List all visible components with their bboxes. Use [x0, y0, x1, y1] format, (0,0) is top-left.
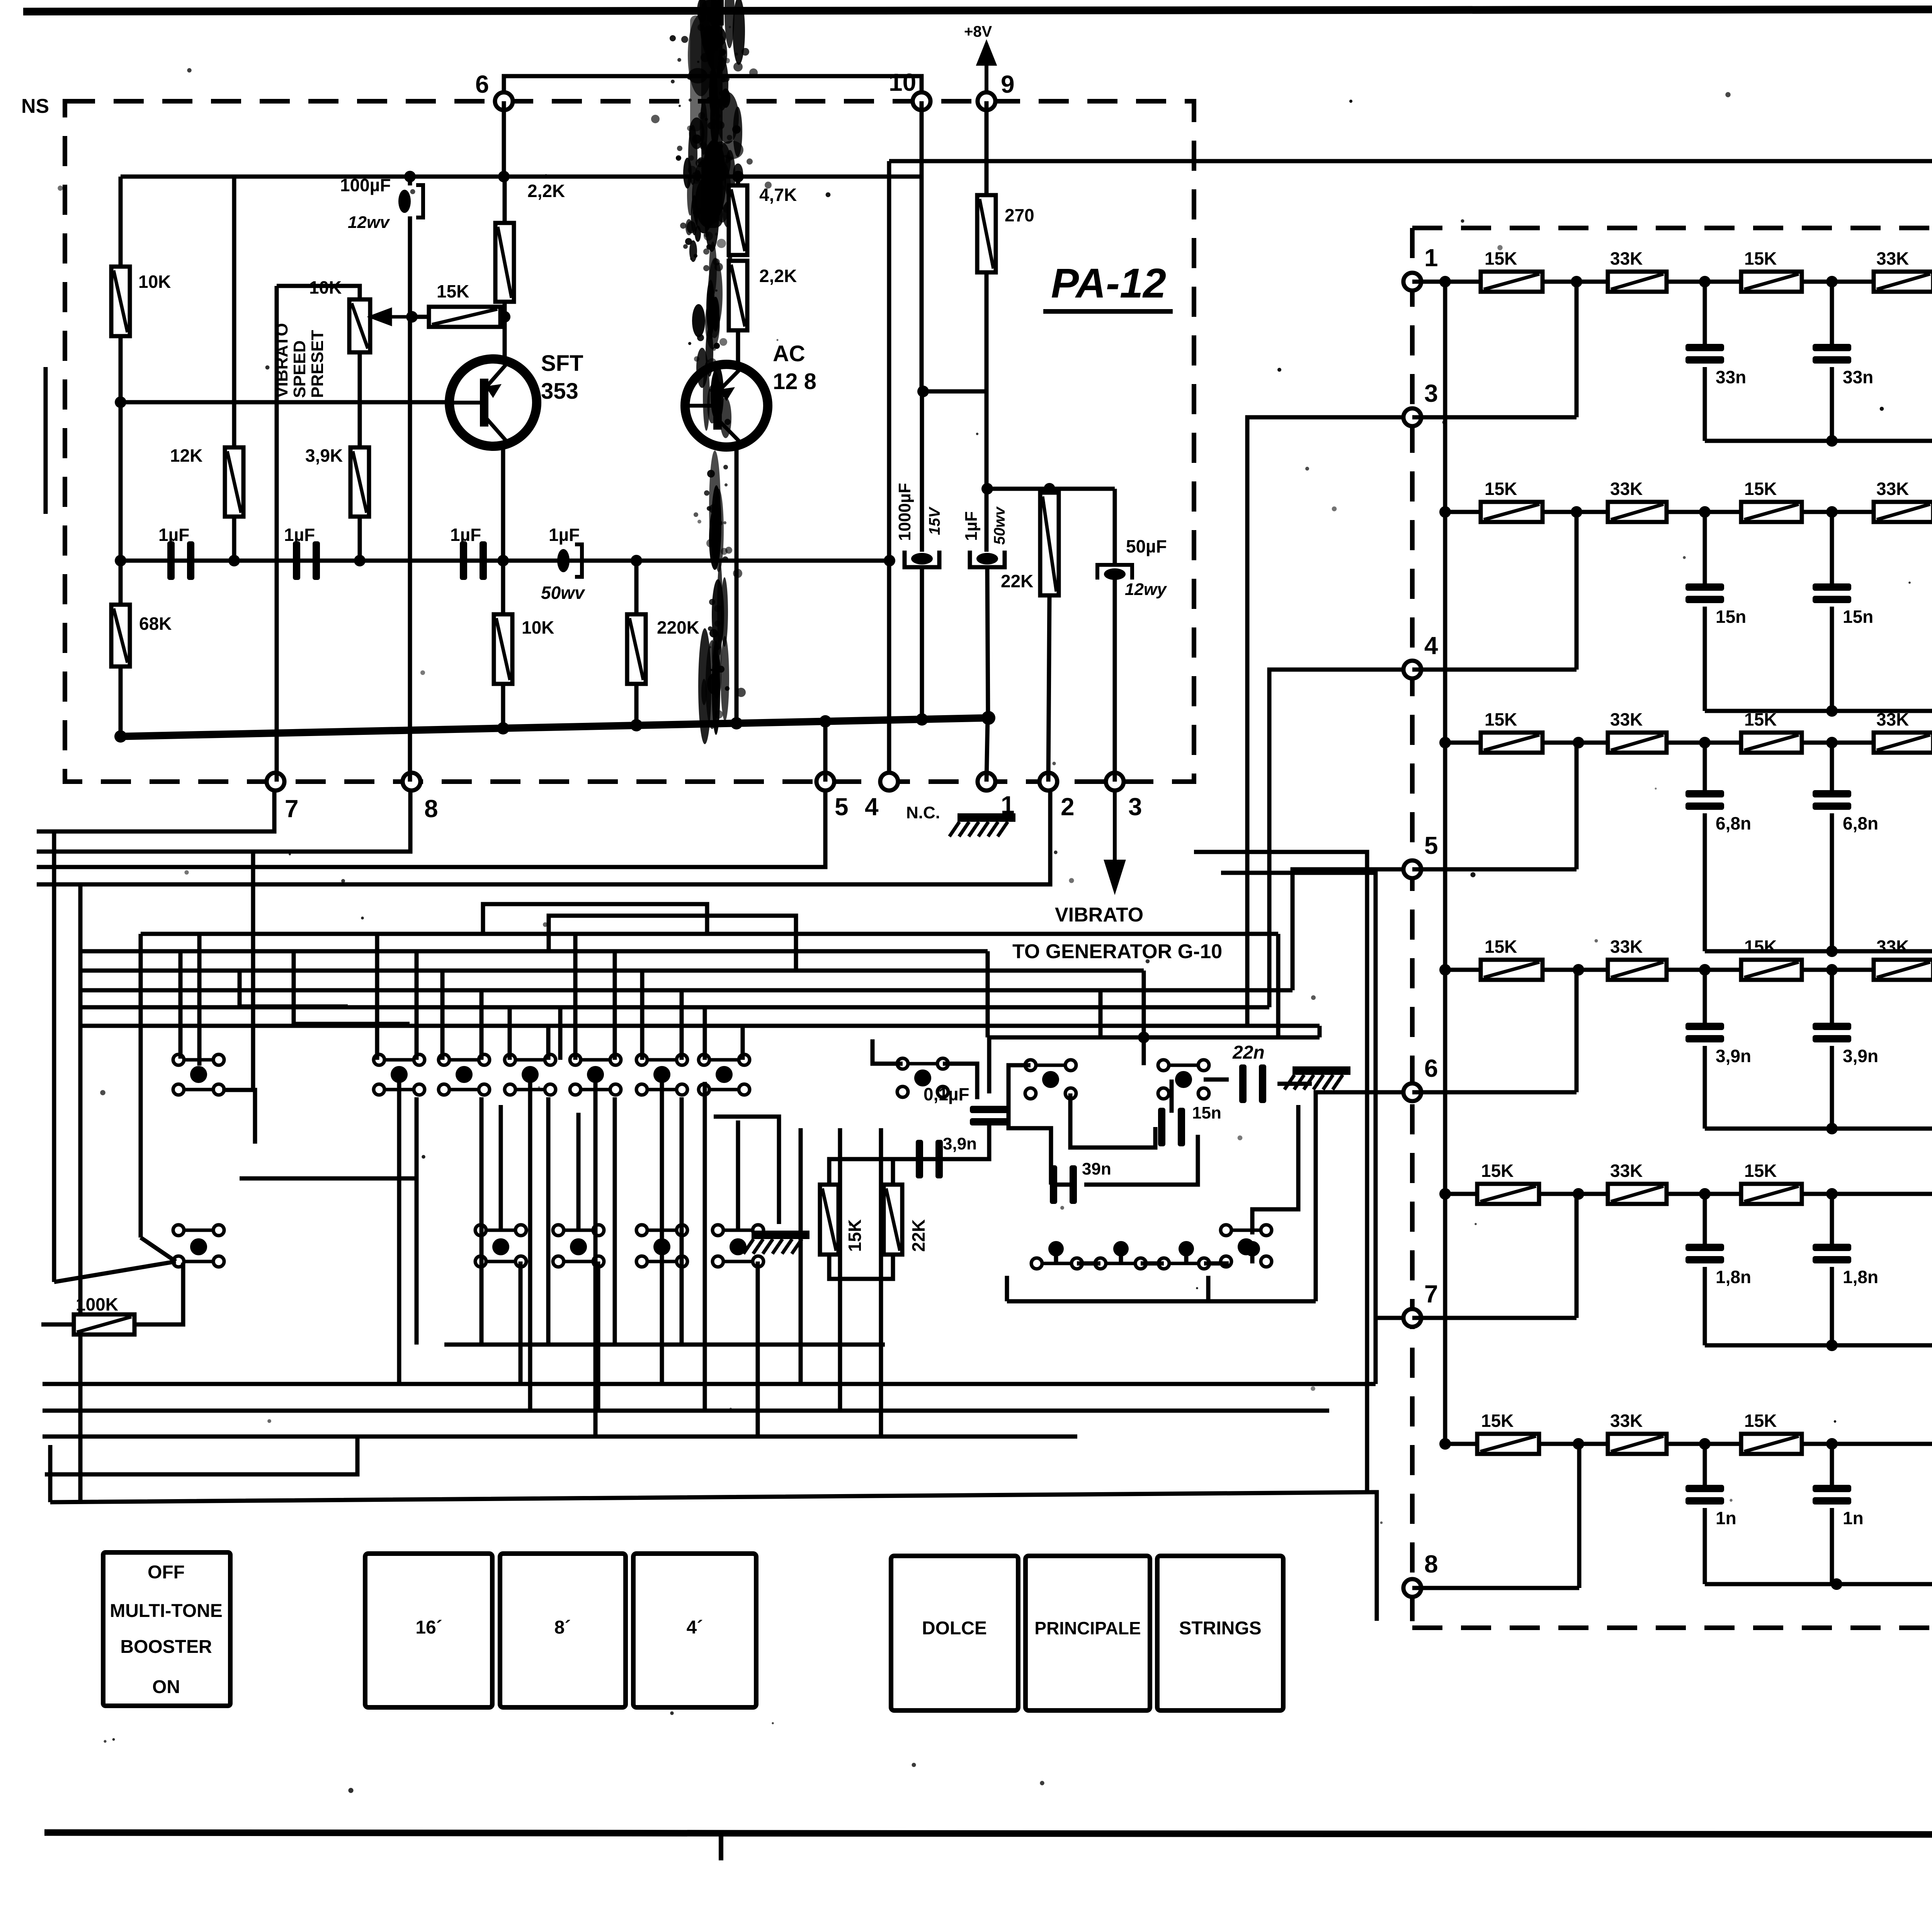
resistor 100K: [74, 1314, 134, 1335]
wire main return line: [1705, 1582, 1932, 1586]
wire pin6 line: [1412, 1090, 1577, 1095]
wire matrix row2 dropper x1961: [756, 1261, 760, 1437]
junction row5 x4741: [1826, 1188, 1838, 1200]
svg-text:1µF: 1µF: [158, 525, 189, 545]
junction caps line left: [115, 555, 126, 566]
wire matrix row2 riser x1296: [499, 1105, 503, 1230]
switch unit row1 x1033: [374, 1054, 425, 1095]
wire filter w9: [1009, 1065, 1051, 1185]
wire filter c to 22n: [1204, 1078, 1229, 1082]
wire filter bottom loop stub: [1206, 1276, 1211, 1301]
PA-12 ground bus thick: [121, 718, 988, 736]
FD-10 dashed left edge: [1410, 228, 1415, 1628]
junction row3 left: [1439, 737, 1451, 748]
wire SFT collector: [501, 445, 505, 561]
resistor 2.2K: [495, 223, 514, 302]
junction row2 left: [1439, 506, 1451, 518]
junction bus-220K: [630, 719, 643, 731]
junction row3 return a: [1826, 945, 1838, 957]
wire row1 cap drop x4741: [1830, 282, 1834, 344]
node FD-10 pin 6: [1403, 1083, 1421, 1101]
junction row4 x4085: [1573, 964, 1584, 976]
wire 22K feed line: [987, 487, 1115, 491]
svg-text:33K: 33K: [1610, 1411, 1643, 1431]
wire AC128 emitter lead: [736, 330, 740, 366]
junction row2 return a: [1826, 705, 1838, 717]
wire filter bottom dot drop x3241: [1250, 1249, 1255, 1263]
ground 22n: [1284, 1066, 1350, 1090]
switch unit row2 x1497: [553, 1225, 604, 1267]
svg-text:220K: 220K: [657, 617, 699, 638]
junction bus end: [981, 711, 995, 725]
svg-text:1,8n: 1,8n: [1843, 1267, 1878, 1287]
wire filter gnd link: [714, 1117, 779, 1224]
resistor 15K r6c: [1741, 1411, 1802, 1454]
wire interrow vertical row1-row2: [1443, 282, 1447, 512]
node FD-10 pin 1: [1403, 273, 1421, 291]
wire fan b: [141, 1238, 176, 1261]
resistor 15K r5c: [1741, 1161, 1802, 1204]
transistor SFT353: [449, 351, 583, 446]
wire FD10 pin3 to matrix: [1247, 417, 1402, 1026]
wire lower bus a: [43, 1382, 1376, 1386]
svg-text:SPEED: SPEED: [290, 340, 309, 398]
wire 270 to node10 vertical: [923, 272, 986, 391]
wire row4 cap to return x4412: [1703, 1046, 1707, 1129]
junction row2 x4741: [1826, 506, 1838, 518]
svg-text:10: 10: [889, 68, 916, 96]
wire mesh to bottom x2174: [838, 1128, 842, 1411]
svg-text:1µF: 1µF: [962, 511, 981, 541]
svg-text:0,1µF: 0,1µF: [923, 1084, 969, 1104]
wire filter w13: [1070, 1093, 1155, 1148]
wire row3 cap to return x4741: [1830, 813, 1834, 951]
wire row1 cap to return x4741: [1830, 367, 1834, 441]
node 2 PA-12 pin: [1039, 773, 1057, 791]
svg-text:+8V: +8V: [964, 23, 992, 40]
svg-text:PRESET: PRESET: [308, 330, 327, 398]
junction row5 left: [1439, 1188, 1451, 1200]
capacitor 6.8n x4412: [1685, 790, 1751, 833]
junction row4 left: [1439, 964, 1451, 976]
junction wiper-2.2K: [499, 311, 510, 323]
svg-text:33K: 33K: [1610, 709, 1643, 729]
node 3 PA-12 pin: [1106, 773, 1124, 791]
svg-text:8: 8: [424, 795, 438, 823]
switch unit row1 x1541: [570, 1054, 621, 1095]
wire lower hook: [45, 1437, 357, 1474]
junction row2 x4412: [1699, 506, 1711, 518]
ground filter left: [743, 1231, 810, 1254]
wire filter bottom loop left: [1005, 1276, 1009, 1301]
resistor 15K preset: [429, 307, 500, 327]
svg-text:50wv: 50wv: [541, 583, 585, 603]
transistor AC128: [685, 341, 816, 447]
wire mesh bottom h a: [444, 1343, 885, 1347]
wire pin6 to row4 riser: [1575, 970, 1579, 1092]
wire node10 vertical: [920, 101, 924, 391]
wire row4 return: [1705, 1127, 1932, 1131]
wire matrix riser x1922: [741, 1026, 745, 1060]
capacitor 33n x4741: [1813, 344, 1873, 387]
resistor 15K filter: [820, 1185, 838, 1255]
wire mesh jog b: [549, 916, 796, 971]
wire filter w4: [829, 1159, 942, 1185]
wire row5 cap drop x4412: [1703, 1194, 1707, 1244]
tab box 8ft: [500, 1554, 626, 1707]
resistor 33K r2d: [1874, 479, 1932, 522]
wire pin7 line: [1412, 1316, 1577, 1320]
node 6 PA-12 pin: [495, 92, 513, 110]
wire 100uF vertical: [408, 177, 412, 185]
wire PA12 out right b: [1221, 873, 1376, 1384]
scan smudge band top-center lower: [688, 206, 748, 431]
wire bus line y2417 left end: [139, 934, 143, 1238]
wire matrix riser x1419: [546, 1026, 551, 1060]
svg-text:15K: 15K: [845, 1219, 865, 1252]
wire matrix riser x1246: [480, 990, 484, 1060]
junction row1 x4412: [1699, 276, 1711, 287]
svg-text:33K: 33K: [1610, 248, 1643, 269]
wire filter w6: [829, 1255, 893, 1279]
svg-text:12wv: 12wv: [348, 213, 390, 232]
svg-text:33K: 33K: [1610, 1161, 1643, 1181]
resistor 68K: [111, 605, 172, 666]
wire filter w1: [872, 1039, 903, 1064]
wire filter w10: [1051, 1183, 1076, 1187]
resistor 10K left: [111, 267, 171, 336]
wire wiper line: [412, 315, 505, 319]
tab box 16ft: [365, 1554, 492, 1707]
resistor 33K r5b: [1608, 1161, 1667, 1204]
svg-text:4´: 4´: [687, 1617, 703, 1638]
resistor 15K r4a: [1481, 937, 1543, 980]
wire bus line y2563 stub: [1099, 990, 1103, 1035]
svg-text:TO GENERATOR G-10: TO GENERATOR G-10: [1012, 940, 1222, 963]
capacitor 15n x4741: [1813, 583, 1873, 627]
capacitor 33n x4412: [1685, 344, 1746, 387]
junction row4 x4741: [1826, 964, 1838, 976]
svg-text:3,9K: 3,9K: [305, 445, 343, 466]
resistor 4.7K: [729, 185, 747, 255]
capacitor 39n: [1050, 1165, 1077, 1204]
wire matrix long dropper x1419: [546, 1097, 551, 1345]
junction rail-2.2K: [498, 171, 510, 182]
junction bus-node5: [819, 715, 832, 728]
wire node4 vertical: [887, 161, 891, 782]
wire SFT base: [121, 400, 449, 405]
capacitor 50uF electrolytic: [1097, 565, 1132, 580]
vibrato output arrow: [1106, 791, 1123, 889]
svg-text:12wy: 12wy: [1125, 580, 1167, 599]
scan smudge core top-center: [701, 0, 723, 228]
wire node9 vertical top: [985, 101, 989, 195]
wire filter w7: [987, 1037, 992, 1093]
wire pin3 to row1 riser: [1575, 282, 1579, 417]
svg-text:15K: 15K: [1744, 479, 1777, 499]
wire filter bottom link c: [1204, 1261, 1229, 1266]
resistor 15K r2c: [1741, 479, 1802, 522]
wire row6 line: [1445, 1442, 1932, 1446]
resistor 15K r1c: [1741, 248, 1802, 292]
scan smudge band top-center: [651, 0, 772, 252]
capacitor 15n filter: [1158, 1108, 1185, 1146]
resistor 22K shunt: [1040, 493, 1059, 595]
svg-text:6,8n: 6,8n: [1843, 813, 1878, 833]
wire node7 riser: [275, 286, 279, 782]
wire filter w12: [1170, 1080, 1174, 1113]
wire first switch bottom link: [222, 1090, 255, 1144]
potentiometer 10K vibrato speed preset: [349, 299, 370, 352]
junction bus-AC128: [730, 717, 743, 729]
wire row5 cap to return x4741: [1830, 1267, 1834, 1345]
wire 10K to bus: [501, 684, 505, 729]
resistor 15K r4c: [1741, 937, 1802, 980]
junction row1 return a: [1826, 435, 1838, 447]
capacitor 1uF electrolytic 50wv: [557, 544, 582, 577]
node FD-10 pin 3: [1403, 408, 1421, 426]
svg-text:33K: 33K: [1876, 248, 1909, 269]
junction rail-4.7K: [732, 171, 744, 182]
svg-text:15K: 15K: [1744, 709, 1777, 729]
junction base line: [115, 396, 126, 408]
wire 1000uF to bus: [920, 567, 924, 719]
wire row4 cap to return x4741: [1830, 1046, 1834, 1129]
svg-text:100K: 100K: [76, 1294, 118, 1314]
svg-text:12 8: 12 8: [773, 369, 816, 394]
wire interrow vertical row4-row5: [1443, 970, 1447, 1194]
wire filter bottom link a: [1077, 1261, 1100, 1266]
svg-text:1n: 1n: [1843, 1508, 1864, 1528]
svg-text:9: 9: [1001, 70, 1015, 98]
wire filter w3: [917, 1124, 989, 1159]
scan smudge core top-center b: [690, 15, 702, 131]
svg-text:10K: 10K: [309, 277, 342, 298]
junction row4 x4412: [1699, 964, 1711, 976]
junction row3 x4412: [1699, 737, 1711, 748]
wire lower bus c: [43, 1435, 1077, 1439]
wire matrix column x655: [251, 852, 255, 1090]
wire matrix dropper x1824: [703, 1082, 707, 1411]
wire supply rail y457: [121, 175, 923, 179]
svg-text:22K: 22K: [1001, 571, 1033, 591]
junction row5 x4412: [1699, 1188, 1711, 1200]
wire mesh to bottom x2072: [799, 1128, 803, 1384]
resistor 15K r6a: [1477, 1411, 1539, 1454]
wire node6 to node10 top jog: [504, 76, 922, 101]
wire node2 return line: [37, 791, 1050, 884]
wire filter w11: [1084, 1135, 1198, 1185]
switch contacts filter b: [1025, 1060, 1076, 1099]
wire node8 return line: [37, 791, 410, 852]
svg-text:1n: 1n: [1716, 1508, 1736, 1528]
wire FD10 pin7 stub: [1376, 1316, 1402, 1320]
switch unit row2 x1296: [475, 1225, 526, 1267]
resistor 270: [977, 195, 1034, 272]
svg-text:15K: 15K: [1744, 1411, 1777, 1431]
wire 4.7K top: [736, 177, 740, 185]
wire bus line y2462 right end: [986, 951, 990, 1037]
capacitor 1uF a: [158, 525, 194, 580]
wire row6 cap to return x4412: [1703, 1508, 1707, 1584]
wire 100K right: [134, 1263, 183, 1324]
junction row3 x4085: [1573, 737, 1584, 748]
node FD-10 pin 5: [1403, 860, 1421, 878]
wire row2 cap drop x4412: [1703, 512, 1707, 583]
svg-text:PRINCIPALE: PRINCIPALE: [1034, 1618, 1141, 1638]
svg-text:4,7K: 4,7K: [759, 185, 797, 205]
switch unit row1 x1201: [439, 1054, 490, 1095]
wire bus line y2462: [80, 949, 988, 954]
wire matrix long dropper x1078: [415, 1097, 419, 1345]
wire row5 return: [1705, 1343, 1932, 1348]
multitone booster box: [103, 1552, 230, 1706]
wire 12K column: [232, 177, 236, 561]
wire row5 line: [1445, 1192, 1932, 1196]
top border tick: [718, 0, 724, 26]
resistor 33K r1d: [1874, 248, 1932, 292]
wire matrix riser x1824: [703, 1007, 707, 1060]
wire matrix dropper x1372: [528, 1082, 532, 1411]
svg-text:15K: 15K: [1481, 1411, 1514, 1431]
wire matrix dropper x1033: [397, 1082, 401, 1384]
wire pin4 line: [1412, 668, 1577, 672]
switch unit row2 x1910: [713, 1225, 764, 1267]
svg-text:15n: 15n: [1843, 607, 1873, 627]
junction row3 x4741: [1826, 737, 1838, 748]
junction row6 x4085: [1573, 1438, 1584, 1450]
wire bundle left vertical a: [52, 831, 56, 1282]
switch contacts filter bottom x2900: [1095, 1258, 1146, 1269]
svg-text:15K: 15K: [1744, 1161, 1777, 1181]
capacitor 1n x4741: [1813, 1485, 1864, 1528]
switch unit row1 x514: [173, 1054, 224, 1095]
wire row3 cap drop x4412: [1703, 743, 1707, 790]
resistor 22K filter: [884, 1185, 902, 1255]
wire mesh jog a: [483, 904, 707, 934]
wire row5 cap to return x4412: [1703, 1267, 1707, 1345]
wire row1 line: [1412, 280, 1932, 284]
svg-text:33K: 33K: [1876, 479, 1909, 499]
svg-text:33K: 33K: [1610, 479, 1643, 499]
resistor 33K r2b: [1608, 479, 1667, 522]
resistor 220K: [627, 614, 646, 684]
svg-text:33K: 33K: [1876, 709, 1909, 729]
wire 1uF50wv to bus end: [987, 567, 988, 718]
wire 220K to bus: [634, 684, 639, 726]
wire bottom long line: [50, 1492, 1377, 1621]
wire matrix row2 riser x1910: [736, 1120, 740, 1230]
svg-text:8: 8: [1424, 1550, 1438, 1578]
wire matrix long dropper x1764: [680, 1097, 684, 1345]
svg-text:15K: 15K: [1481, 1161, 1514, 1181]
resistor 15K r5a: [1477, 1161, 1539, 1204]
capacitor 15n x4412: [1685, 583, 1746, 627]
wire pin8 line: [1412, 1586, 1579, 1590]
resistor 33K r4d: [1874, 937, 1932, 980]
wire 2.2K bottom to transistor: [503, 302, 507, 359]
svg-text:100µF: 100µF: [340, 175, 391, 195]
junction bus-10K: [497, 722, 509, 734]
wire left column x312: [119, 177, 123, 561]
bottom border tick left: [719, 1833, 723, 1860]
wire bus line y2512 right end: [1142, 971, 1146, 1037]
junction 22K top: [1044, 483, 1055, 495]
capacitor 6.8n x4741: [1813, 790, 1878, 833]
resistor 12K: [225, 447, 243, 517]
wire 50uF hang: [1113, 489, 1117, 565]
resistor 15K r1a: [1481, 248, 1543, 292]
svg-text:3: 3: [1424, 379, 1438, 407]
capacitor 1.8n x4412: [1685, 1244, 1751, 1287]
junction row5 x4085: [1573, 1188, 1584, 1200]
wire matrix riser x1764: [680, 990, 684, 1060]
capacitor 1.8n x4741: [1813, 1244, 1878, 1287]
wire filter w5: [891, 1159, 895, 1185]
wire bus end to node1: [986, 718, 988, 782]
wire matrix long dropper x1591: [613, 1097, 617, 1345]
wire row2 line: [1445, 510, 1932, 514]
wire 3.9K column: [358, 352, 362, 561]
wire row6 cap drop x4741: [1830, 1444, 1834, 1485]
resistor 10K pa12 lower: [494, 614, 512, 684]
junction filter bottom dot x2901: [1113, 1241, 1129, 1256]
wire row5 cap drop x4741: [1830, 1194, 1834, 1244]
svg-text:VIBRATO: VIBRATO: [272, 323, 291, 398]
node 5 PA-12 pin: [816, 773, 834, 791]
wire bundle left vertical b: [78, 884, 83, 1501]
svg-text:MULTI-TONE: MULTI-TONE: [110, 1601, 223, 1621]
wire 1uF50wv hang: [985, 391, 989, 552]
wire row3 cap drop x4741: [1830, 743, 1834, 790]
capacitor 0.1uF: [970, 1106, 1009, 1125]
tab box STRINGS: [1157, 1556, 1283, 1710]
wire AC128 collector: [735, 446, 739, 724]
wire row4 cap drop x4412: [1703, 970, 1707, 1023]
junction row1 x4741: [1826, 276, 1838, 287]
wire 100K left: [41, 1323, 74, 1327]
junction capsline-node4: [884, 555, 895, 566]
wire matrix row2 dropper x1347: [519, 1261, 523, 1384]
wire mesh bottom h b: [240, 1176, 417, 1181]
svg-text:2: 2: [1061, 793, 1075, 821]
capacitor 22n: [1239, 1064, 1266, 1103]
wire filter bottom dot drop x2733: [1054, 1249, 1058, 1263]
resistor 33K r3b: [1608, 709, 1667, 753]
junction filter bottom dot x2733: [1048, 1241, 1064, 1256]
top border line: [23, 9, 1932, 12]
svg-text:22n: 22n: [1232, 1042, 1265, 1063]
wire mesh jog d: [294, 951, 410, 1024]
svg-text:39n: 39n: [1082, 1159, 1111, 1178]
wire interrow vertical row5-row6: [1443, 1194, 1447, 1444]
svg-text:3,9n: 3,9n: [943, 1134, 977, 1153]
wire row3 line: [1445, 741, 1932, 745]
wire matrix riser x1591: [613, 951, 617, 1060]
wire node7 return line: [37, 791, 274, 831]
junction caps line x1647: [631, 555, 642, 566]
svg-text:OFF: OFF: [148, 1562, 185, 1583]
wire pin7 to row5 riser: [1575, 1194, 1579, 1318]
svg-text:6: 6: [1424, 1054, 1438, 1082]
pot wiper arrow: [372, 310, 412, 324]
wire bus line y2655: [80, 1024, 1320, 1028]
svg-text:5: 5: [1424, 831, 1438, 859]
svg-text:8´: 8´: [554, 1617, 571, 1638]
wire FD10 pin6 to matrix: [1316, 1092, 1402, 1301]
wire pin5 line: [1412, 867, 1577, 872]
wire matrix row2 riser x1497: [577, 1113, 581, 1230]
